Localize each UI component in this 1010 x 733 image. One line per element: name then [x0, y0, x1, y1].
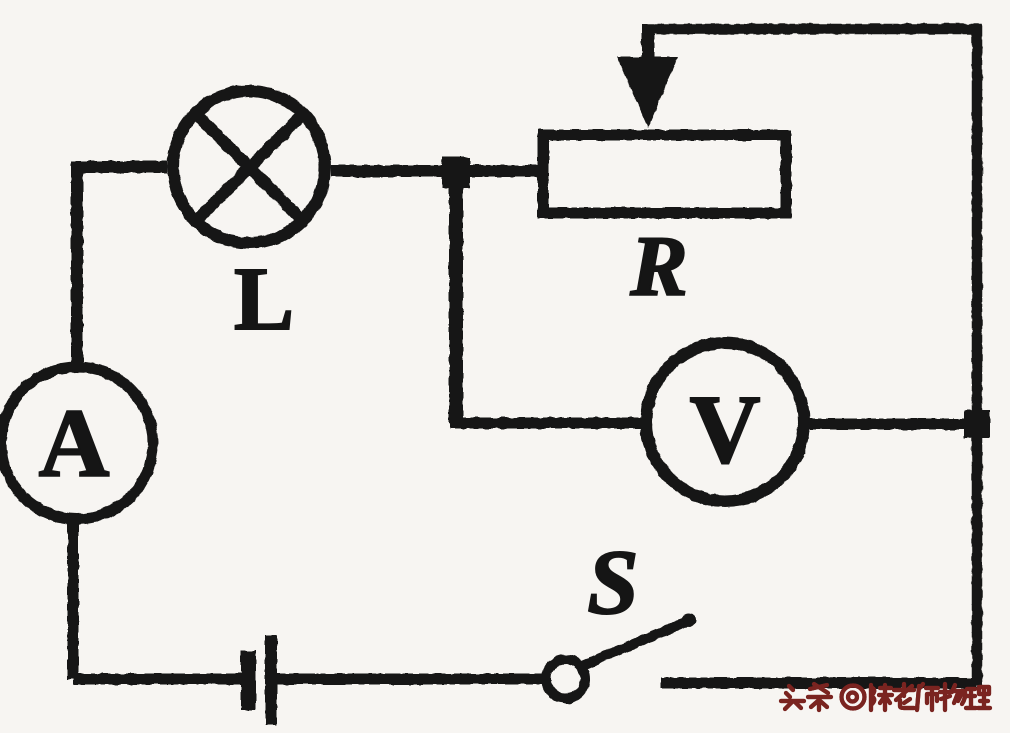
svg-text:R: R [629, 218, 687, 314]
svg-text:A: A [39, 390, 110, 498]
svg-text:V: V [690, 376, 761, 484]
svg-text:L: L [234, 250, 294, 349]
svg-text:S: S [587, 531, 638, 633]
